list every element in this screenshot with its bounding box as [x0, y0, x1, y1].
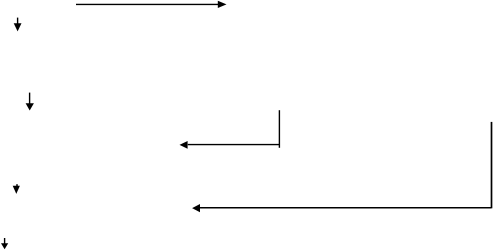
- wire: top horizontal connector: [76, 3, 219, 5]
- wire: center elbow vertical segment: [278, 110, 280, 148]
- arrowhead: upper-left connector down-pointing tip: [14, 23, 22, 31]
- arrowhead: bottom-left connector down-pointing tip: [1, 243, 8, 249]
- arrowhead: top connector right-pointing tip: [218, 1, 227, 8]
- arrowhead: lower-left connector down-pointing tip: [13, 186, 20, 194]
- wire: bottom-left vertical connector: [4, 238, 6, 245]
- arrowhead: center elbow left-pointing tip: [180, 141, 188, 149]
- arrowhead: bottom connector left-pointing tip: [192, 204, 200, 212]
- arrowhead: mid-left connector down-pointing tip: [26, 103, 34, 110]
- wire: right tall vertical segment: [491, 122, 493, 208]
- wire: bottom long horizontal segment: [200, 207, 492, 209]
- wire: lower-left stub connector: [16, 184, 18, 186]
- wire: upper-left short vertical connector: [17, 18, 19, 25]
- wire: mid-left vertical connector: [29, 93, 31, 105]
- wire: center elbow horizontal segment: [188, 144, 280, 146]
